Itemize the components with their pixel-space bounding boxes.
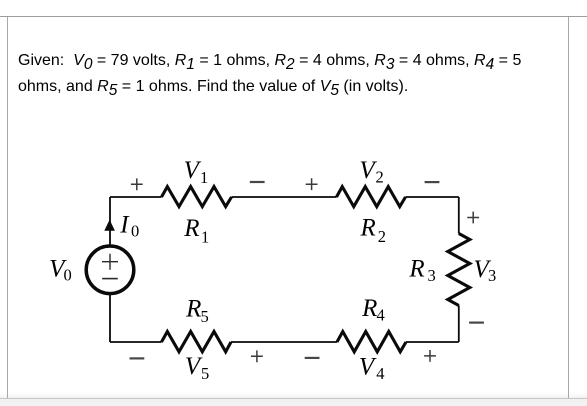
svg-text:5: 5 bbox=[201, 307, 209, 326]
svg-text:I: I bbox=[119, 211, 130, 238]
svg-text:2: 2 bbox=[376, 167, 384, 186]
svg-text:5: 5 bbox=[201, 364, 209, 383]
svg-text:R: R bbox=[408, 256, 424, 283]
svg-text:4: 4 bbox=[377, 306, 385, 325]
svg-text:2: 2 bbox=[378, 227, 386, 246]
svg-text:0: 0 bbox=[131, 221, 139, 240]
svg-text:1: 1 bbox=[200, 168, 208, 187]
svg-text:R: R bbox=[360, 215, 376, 242]
svg-text:V: V bbox=[359, 354, 377, 381]
svg-text:R: R bbox=[361, 295, 377, 322]
svg-text:4: 4 bbox=[376, 364, 384, 383]
svg-text:R: R bbox=[183, 215, 199, 242]
svg-text:V: V bbox=[184, 157, 202, 184]
svg-text:1: 1 bbox=[201, 227, 209, 246]
svg-text:3: 3 bbox=[488, 266, 496, 285]
svg-text:3: 3 bbox=[428, 266, 436, 285]
svg-text:R: R bbox=[185, 296, 201, 323]
svg-text:0: 0 bbox=[64, 266, 72, 285]
